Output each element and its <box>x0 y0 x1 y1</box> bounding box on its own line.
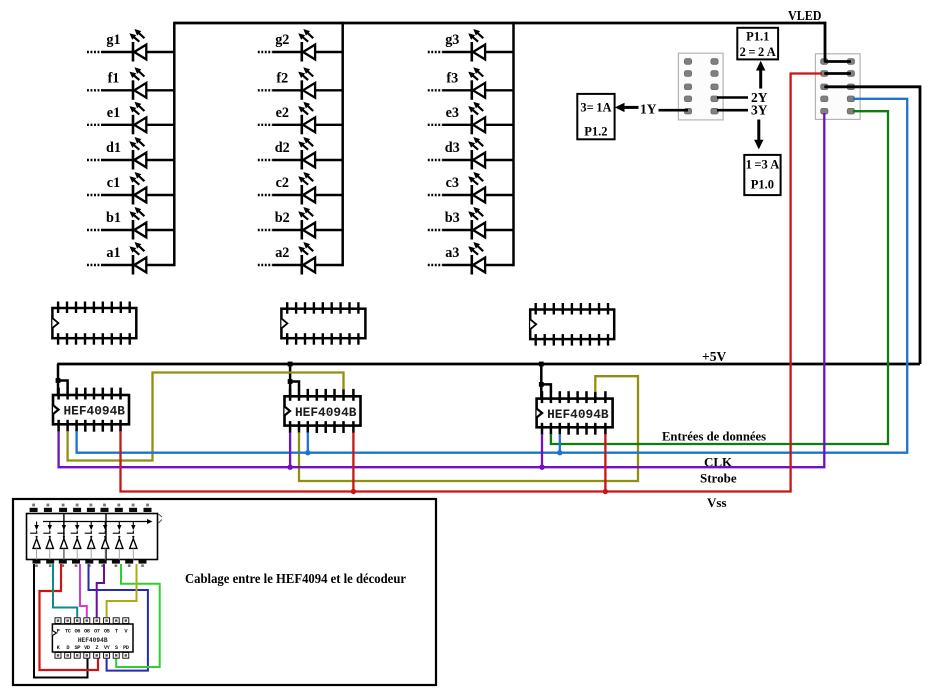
svg-text:P1.1: P1.1 <box>746 30 769 44</box>
net Vss wire (red) <box>121 74 823 492</box>
IC decoder/driver board U4 <box>27 514 158 560</box>
svg-text:3= 1A: 3= 1A <box>580 101 611 115</box>
wire anode bus column 2 <box>341 22 344 266</box>
LED a1 <box>87 242 174 275</box>
svg-text:a3: a3 <box>445 245 459 261</box>
wire Vss stub U2 pin8 <box>352 432 354 491</box>
svg-text:O5: O5 <box>104 629 110 635</box>
svg-text:VLED: VLED <box>788 9 822 24</box>
pins top pads of decoder board <box>30 504 152 512</box>
connector J2 (header right) <box>815 54 860 120</box>
svg-text:e3: e3 <box>446 105 459 121</box>
net Entrees de donnees wire (green) <box>551 111 888 444</box>
net +5V rail wire <box>57 363 920 366</box>
svg-text:d3: d3 <box>445 140 460 156</box>
wire +5V supply drop to U2 <box>290 364 299 396</box>
junction Vss at U3 <box>603 489 608 494</box>
wire Strobe stub U3 pin1 <box>541 434 543 467</box>
LED a2 <box>258 242 343 275</box>
LED a3 <box>428 242 514 275</box>
driver triangles inside decoder board <box>33 536 137 560</box>
junction +5V jog corner U1 <box>56 378 61 383</box>
connector DIP socket K2 <box>281 302 365 345</box>
svg-text:HEF4094B: HEF4094B <box>295 405 357 420</box>
svg-text:e1: e1 <box>107 105 120 121</box>
arrow 2Y up to P1.1 <box>756 61 765 89</box>
LED c2 <box>258 172 343 205</box>
svg-text:g3: g3 <box>445 32 459 48</box>
LED c1 <box>87 172 174 205</box>
junction CLK at U3 <box>557 450 562 455</box>
LED b2 <box>258 207 343 240</box>
LED f1 <box>87 67 174 100</box>
wire anode bus column 3 <box>512 22 515 266</box>
LED c3 <box>428 172 514 205</box>
svg-text:b2: b2 <box>275 210 290 226</box>
svg-text:1 =3 A: 1 =3 A <box>746 158 780 172</box>
svg-text:HEF4094B: HEF4094B <box>64 404 126 419</box>
svg-text:g1: g1 <box>106 32 120 48</box>
LED d3 <box>428 137 514 170</box>
wire sub olive to U5 pin11 <box>107 564 137 617</box>
junction Vss at U2 <box>351 489 356 494</box>
svg-text:b3: b3 <box>445 210 460 226</box>
LED g1 <box>87 29 174 62</box>
svg-text:a1: a1 <box>106 245 120 261</box>
wire sub red to U5 pin5 <box>40 564 99 670</box>
svg-text:P1.0: P1.0 <box>751 178 774 192</box>
LED e3 <box>428 102 514 135</box>
wire 2Y from J1 <box>717 96 748 99</box>
box P1.1 / 2=2A <box>737 28 778 60</box>
wire VLED drop to connector J2 pin1 <box>824 22 827 62</box>
LED g2 <box>258 29 343 62</box>
wire Strobe stub U2 pin1 <box>289 432 291 467</box>
pins bottom pads of decoder board <box>33 560 147 567</box>
mark right edge tick of decoder board <box>159 514 163 523</box>
svg-text:O6: O6 <box>74 629 80 635</box>
svg-text:Strobe: Strobe <box>700 471 737 486</box>
svg-text:g2: g2 <box>275 32 289 48</box>
wire data chain U1.QS to U2 (olive) <box>68 373 344 461</box>
junction CLK at U2 <box>305 450 310 455</box>
svg-text:Z: Z <box>95 645 98 651</box>
LED f3 <box>428 67 514 100</box>
pins top pads of U5 <box>55 618 129 624</box>
LED g3 <box>428 29 514 62</box>
svg-text:HEF4094B: HEF4094B <box>547 407 609 422</box>
wire 3Y from J1 <box>717 109 748 112</box>
svg-text:1Y: 1Y <box>640 102 657 117</box>
pins bottom pads of U5 <box>55 653 129 659</box>
svg-text:b1: b1 <box>106 210 121 226</box>
svg-text:SP: SP <box>74 645 80 651</box>
wire sub teal to U5 pin14 <box>53 564 77 617</box>
LED e1 <box>87 102 174 135</box>
wire sub black pad1 to U5 pin4 <box>34 564 88 678</box>
wire 1Y to J1 <box>659 109 689 112</box>
sub-circuit frame box <box>13 499 436 685</box>
LED b3 <box>428 207 514 240</box>
net CLK wire (blue) <box>77 99 908 453</box>
net Strobe wire (purple) <box>59 113 825 467</box>
svg-text:O7: O7 <box>94 629 100 635</box>
wire +5V supply drop to U1 <box>58 364 68 395</box>
svg-text:Vss: Vss <box>707 495 727 510</box>
IC U1 HEF4094B <box>53 388 129 432</box>
wire J2 row1 link <box>824 60 851 63</box>
connector J1 (header left) <box>678 53 723 120</box>
svg-text:2 = 2 A: 2 = 2 A <box>740 45 776 59</box>
junction Strobe at U2 <box>287 465 292 470</box>
IC U3 HEF4094B <box>537 391 613 435</box>
box 1=3A / P1.0 <box>744 155 780 195</box>
wire Vss stub U3 pin8 <box>604 434 606 492</box>
junction +5V jog corner U3 <box>539 382 544 387</box>
svg-text:+5V: +5V <box>702 349 726 364</box>
svg-text:c3: c3 <box>446 175 459 191</box>
wire J2 row2 link <box>824 72 851 75</box>
LED e2 <box>258 102 343 135</box>
junction +5V jog corner U2 <box>288 379 293 384</box>
wire J2 row3 to +5V vertical <box>824 87 920 364</box>
wire anode bus column 1 <box>173 22 176 266</box>
connector DIP socket K3 <box>530 303 614 346</box>
svg-text:Cablage entre le HEF4094 et le: Cablage entre le HEF4094 et le décodeur <box>185 571 406 586</box>
svg-text:HEF4094B: HEF4094B <box>78 637 108 644</box>
junction on +5V rail at U3 <box>539 362 544 367</box>
svg-text:3Y: 3Y <box>751 103 768 118</box>
junction Strobe at U3 <box>539 465 544 470</box>
connector DIP socket K1 <box>52 302 136 345</box>
net VLED top bus wire <box>174 22 826 25</box>
IC U5 HEF4094 (sub-circuit) <box>52 624 133 652</box>
svg-text:c1: c1 <box>107 175 120 191</box>
arrow 1Y left to P1.2 <box>615 103 639 112</box>
svg-text:f1: f1 <box>108 70 120 86</box>
svg-text:c2: c2 <box>276 175 289 191</box>
svg-text:Entrées de données: Entrées de données <box>662 429 766 444</box>
svg-text:e2: e2 <box>276 105 289 121</box>
wire data chain U2.QS to U3 (olive) <box>299 376 638 481</box>
LED f2 <box>258 67 343 100</box>
LED b1 <box>87 207 174 240</box>
LED d1 <box>87 137 174 170</box>
wire CLK stub U3 pin3 <box>559 434 561 453</box>
svg-text:a2: a2 <box>275 245 289 261</box>
svg-text:d1: d1 <box>106 140 121 156</box>
svg-text:d2: d2 <box>275 140 290 156</box>
junction on +5V rail at U2 <box>288 362 293 367</box>
svg-text:f2: f2 <box>276 70 288 86</box>
LED d2 <box>258 137 343 170</box>
IC U2 HEF4094B <box>285 389 361 433</box>
svg-text:f3: f3 <box>446 70 458 86</box>
wire sub purple to U5 pin12 <box>97 564 104 617</box>
svg-text:P1.2: P1.2 <box>584 125 607 139</box>
box 3=1A / P1.2 <box>577 94 614 139</box>
wire sub magenta to U5 pin13 <box>80 564 87 617</box>
arrow 3Y down to P1.0 <box>754 120 763 150</box>
wire +5V supply drop to U3 <box>541 364 551 399</box>
wire CLK stub U2 pin3 <box>307 432 309 452</box>
svg-text:P: P <box>57 629 60 635</box>
svg-text:O8: O8 <box>84 629 90 635</box>
wire sub dark-blue to U5 pin6 <box>89 564 148 671</box>
transistor row inside decoder board <box>30 522 135 534</box>
wire sub green to U5 pin7 <box>116 564 160 667</box>
